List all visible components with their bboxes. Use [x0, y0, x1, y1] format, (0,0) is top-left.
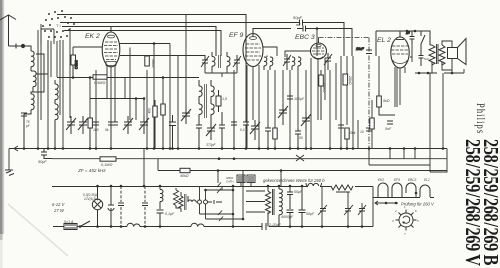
resistor 50k bank [153, 100, 157, 148]
vibrator transformer core [185, 194, 187, 210]
T1 trimmer right [233, 55, 241, 70]
bottom trimmer bank: trimmer 1 [66, 116, 76, 134]
junction dots on line y159 [218, 157, 221, 160]
contact gap [208, 200, 223, 204]
cap 100uF mid [287, 90, 293, 105]
svg-text:50μF: 50μF [38, 160, 47, 164]
svg-text:EK2: EK2 [378, 178, 384, 182]
svg-text:30kΩ: 30kΩ [74, 60, 78, 69]
line y158 [52, 149, 447, 159]
EK2 top cap wire [110, 27, 112, 33]
osc coil pair b [292, 57, 301, 70]
heater dropping resistor [331, 185, 353, 192]
horizontal y98 [90, 78, 144, 99]
tone cap [406, 31, 415, 44]
resistor 20k [343, 74, 348, 85]
pot arrow [296, 155, 304, 161]
svg-text:250kΩ: 250kΩ [322, 81, 326, 93]
cap 172 [169, 115, 176, 148]
wire antenna down [9, 16, 17, 47]
switch c [344, 192, 353, 227]
vibrator transformer winding left [179, 192, 183, 212]
EL2 pin wires [395, 44, 412, 107]
svg-text:EBC3: EBC3 [408, 178, 417, 182]
screen resistor mid [145, 56, 150, 66]
dropping resistor zigzag vertical [174, 188, 182, 208]
mains fuse [64, 224, 77, 230]
cap 298 [295, 128, 301, 148]
tube EL2 [391, 37, 409, 68]
resistor 347 [345, 128, 349, 148]
mains switch [80, 221, 90, 227]
svg-text:50k: 50k [147, 108, 151, 114]
svg-text:5k: 5k [105, 128, 109, 132]
padder cap [324, 53, 332, 70]
trimmer 2 [78, 116, 88, 134]
junction on grid rail [316, 27, 319, 30]
heater loop EK2 [378, 183, 388, 197]
cap v2 [108, 122, 114, 148]
vibrator loop wiring [200, 175, 244, 227]
switch b [318, 186, 327, 227]
trimmer 5 [181, 107, 191, 124]
supply line y170.5 [158, 159, 447, 171]
resistor v1 [88, 118, 92, 148]
svg-text:ZF = 452 kHz: ZF = 452 kHz [77, 168, 106, 173]
choke bumps a [127, 223, 140, 226]
EF9 top cap wire [253, 29, 291, 37]
speaker wires [432, 41, 452, 73]
filter cap 50uF b [299, 186, 306, 227]
wire speaker to bracket [451, 70, 453, 73]
T2 resistor [216, 90, 221, 112]
trimmer 8 [278, 104, 288, 125]
svg-text:5×1 A: 5×1 A [64, 220, 74, 224]
svg-text:EF9: EF9 [394, 178, 400, 182]
cap 0,1uF [157, 210, 164, 227]
EK2 grid resistor 30k [71, 55, 78, 77]
mains transformer secondary [279, 186, 282, 227]
top rail 3 [62, 27, 216, 57]
resistor 40k in supply line [180, 168, 190, 172]
decoupling cap 50uF below bus [41, 149, 52, 159]
band switch contact dots [42, 10, 75, 38]
faint crease bottom left [8, 204, 68, 256]
tube EF9 [243, 34, 263, 67]
svg-text:100μF: 100μF [294, 97, 305, 101]
wire screen top [204, 56, 206, 61]
svg-text:12V(6,3V): 12V(6,3V) [84, 197, 98, 201]
vibrator coil horizontal [188, 196, 197, 202]
resistor 275 [273, 128, 277, 139]
EF9 side wire [263, 47, 278, 56]
EBC3 left wire [285, 51, 311, 57]
feeds down from supply line [218, 171, 281, 187]
mains transformer core [273, 189, 275, 215]
bus dots [79, 225, 364, 228]
scan edge strip [0, 0, 3, 234]
EK2 screen wire [120, 55, 205, 57]
coil L4 [55, 80, 58, 104]
grid line EK2 row2 [57, 75, 199, 79]
small electrolytic [108, 186, 114, 227]
svg-text:EK 2: EK 2 [85, 33, 100, 40]
svg-text:0,1μF: 0,1μF [165, 212, 175, 216]
svg-text:50k: 50k [350, 131, 356, 135]
IF T1 core [219, 55, 221, 68]
resistor 250k [319, 70, 324, 120]
svg-text:Philips: Philips [474, 103, 486, 134]
left coil loop wires [24, 40, 48, 120]
resistor box 163 [161, 104, 165, 148]
mid vertical wires left block [136, 15, 246, 149]
bottom bus [53, 226, 373, 228]
resistor 372 [370, 118, 374, 129]
svg-text:1,5: 1,5 [222, 97, 227, 101]
svg-text:40kΩ: 40kΩ [180, 174, 189, 178]
T2 winding right [211, 80, 214, 122]
field coil [306, 183, 322, 186]
svg-text:nF: nF [296, 22, 301, 27]
svg-text:50μF: 50μF [306, 212, 315, 216]
measurement arrow line [375, 201, 398, 205]
EBC3 top wire [318, 38, 320, 44]
HT bracket wires [415, 69, 464, 148]
trimmer 4 [139, 116, 149, 134]
cap 222 [219, 112, 225, 148]
heater supply line y186 [52, 187, 373, 227]
wire to coil [24, 46, 31, 51]
T1 trimmer left [201, 55, 209, 70]
svg-text:CATH.: CATH. [226, 180, 234, 184]
svg-text:50: 50 [299, 136, 303, 140]
top rail 4 [64, 31, 221, 57]
T2 core [205, 84, 207, 118]
fuse box b [247, 175, 255, 183]
trimmer 9 [301, 112, 311, 130]
dash-dot vertical with cap b [144, 186, 146, 227]
EF9 pin wires [247, 65, 259, 148]
ground lead [8, 149, 10, 171]
svg-text:50pF: 50pF [293, 15, 303, 20]
svg-text:20kΩ: 20kΩ [348, 75, 352, 85]
pilot lamp [92, 186, 102, 227]
svg-text:EL 2: EL 2 [377, 37, 391, 44]
right side lines to bottom [369, 73, 430, 165]
svg-text:373pF: 373pF [206, 143, 217, 147]
EK2 plate wire [120, 43, 171, 45]
heater loop EF9 [392, 183, 402, 197]
cap 199 [196, 122, 202, 148]
cap 246 [243, 120, 249, 148]
top rail 1 [57, 15, 246, 57]
EK2 cathode wires [107, 48, 130, 149]
svg-text:100: 100 [93, 128, 99, 132]
vertical from bus at 144 [143, 149, 145, 187]
tube socket diagram [396, 210, 417, 231]
svg-text:0,1: 0,1 [240, 128, 245, 132]
svg-text:gekennzeichnete Werte für 260: gekennzeichnete Werte für 260 b [263, 178, 325, 183]
osc trimmer a [283, 54, 291, 70]
resistor right [377, 90, 395, 115]
IF transformer T2 winding top [199, 80, 202, 122]
cap at 390 [387, 121, 393, 124]
svg-text:EL2: EL2 [424, 178, 430, 182]
EBC3 pin wires [311, 58, 325, 148]
left coil L2 [31, 71, 36, 92]
junction on plate wire [153, 42, 156, 45]
trimmer 6 [206, 122, 216, 140]
fuse box a [237, 175, 245, 183]
plug contact [16, 44, 21, 49]
resistor 0.5M in AVC line [93, 75, 107, 79]
EL2 top wire [400, 31, 430, 45]
filter cap 4000pF [287, 210, 294, 227]
tube EK2 [102, 32, 120, 67]
series cap on bus [262, 223, 266, 230]
mid vertical wires right block [268, 56, 415, 159]
IF transformer T1 winding a [212, 52, 215, 70]
T1 bottom tie [205, 70, 237, 77]
cap 262 pair [265, 125, 271, 148]
output transformer core [437, 44, 439, 64]
left coil L1 [31, 51, 34, 71]
svg-text:2-20μF: 2-20μF [268, 223, 282, 227]
coupling cap 50pF [356, 47, 372, 54]
dash-dot vertical with cap a [120, 186, 122, 227]
tone switch [419, 31, 426, 66]
switch frame [41, 29, 54, 44]
resistor 0.1M [100, 157, 116, 161]
bus junction dots [23, 147, 445, 150]
heater loop EBC3 [406, 183, 416, 193]
cap v1 [93, 122, 99, 125]
coupling cap in rail 2 [300, 20, 303, 26]
trimmer 3 [123, 116, 133, 134]
svg-text:4000pF: 4000pF [281, 215, 294, 219]
cap v3 [112, 120, 118, 125]
tube EBC3 [311, 43, 327, 59]
filter cap 50uF a [287, 186, 293, 209]
choke bumps b [191, 223, 204, 226]
svg-text:27 W: 27 W [53, 208, 65, 213]
svg-text:258 / 259 / 268 / 269 V: 258 / 259 / 268 / 269 V [460, 139, 483, 266]
vibrator contact circles [198, 200, 202, 204]
heater loop EL2 [420, 185, 430, 197]
osc coil pair a [264, 56, 273, 71]
AVC line y77 [57, 77, 199, 79]
ground bus [14, 148, 447, 150]
wire down from grid rail [316, 29, 318, 57]
svg-text:10: 10 [360, 130, 364, 134]
coil L5 [55, 104, 58, 148]
svg-text:10nF: 10nF [356, 47, 365, 51]
ground symbol [5, 170, 14, 176]
svg-text:Prüfung für 260 V: Prüfung für 260 V [401, 202, 435, 207]
svg-text:T I: T I [56, 23, 61, 28]
svg-text:EF 9: EF 9 [229, 32, 243, 39]
svg-text:5nF: 5nF [385, 127, 392, 131]
cap 234 [231, 120, 237, 148]
grid cap in wire [297, 26, 352, 57]
output transformer primary [429, 45, 435, 66]
top rail 2 [60, 23, 344, 57]
svg-text:5kΩ: 5kΩ [383, 99, 390, 103]
svg-text:0,1MΩ: 0,1MΩ [101, 163, 112, 167]
left coil L3 [24, 92, 34, 114]
cap C-ant [21, 113, 27, 148]
svg-text:6-12 V: 6-12 V [52, 202, 66, 207]
mains transformer primary [246, 186, 271, 227]
wire from dot 154 down [153, 44, 155, 149]
antenna [0, 15, 16, 20]
output transformer secondary [439, 44, 445, 66]
svg-text:2: 2 [394, 209, 397, 213]
switch bank vertical wires [38, 24, 73, 148]
cap 365 low [366, 128, 372, 131]
cap 341 [338, 125, 344, 128]
trimmer 7 [250, 120, 260, 140]
choke coil vertical [160, 186, 163, 209]
cap d [358, 203, 366, 227]
EL2 grid wire left [376, 31, 400, 56]
AVC dash-dot rail [319, 38, 370, 149]
wire down from AVC [90, 70, 96, 148]
IF transformer T1 winding b [227, 52, 230, 70]
svg-text:EBC 3: EBC 3 [295, 34, 315, 41]
bus left terminal arrow [9, 146, 18, 151]
EK2 left grid wire [73, 46, 102, 48]
speaker [448, 39, 467, 65]
heater baseline [373, 197, 434, 199]
